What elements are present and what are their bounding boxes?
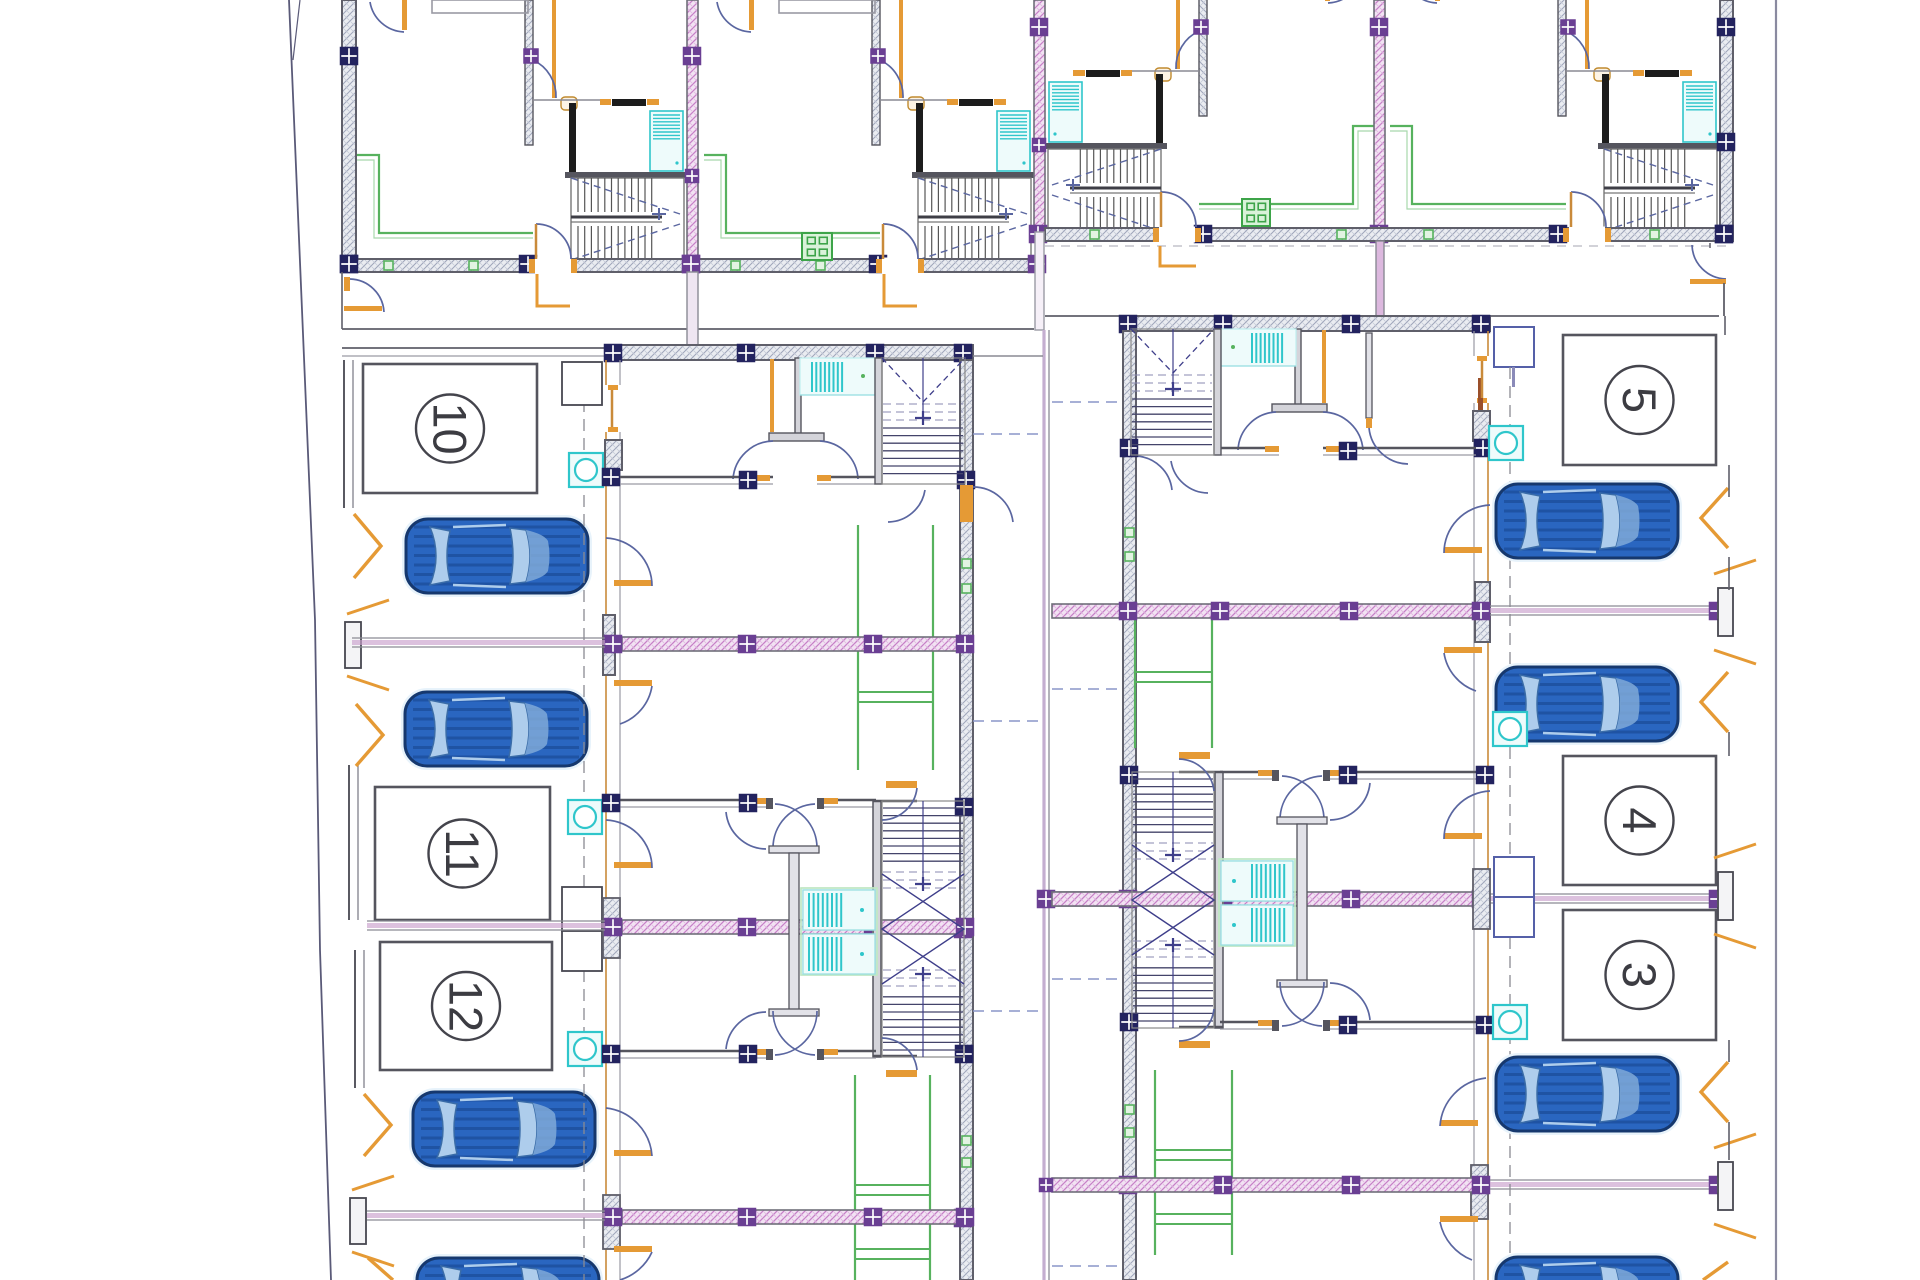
svg-text:4: 4	[1613, 807, 1666, 833]
svg-text:12: 12	[440, 980, 493, 1032]
svg-text:3: 3	[1613, 962, 1666, 988]
svg-text:5: 5	[1613, 387, 1666, 413]
svg-text:10: 10	[424, 402, 477, 454]
svg-text:11: 11	[436, 829, 489, 878]
